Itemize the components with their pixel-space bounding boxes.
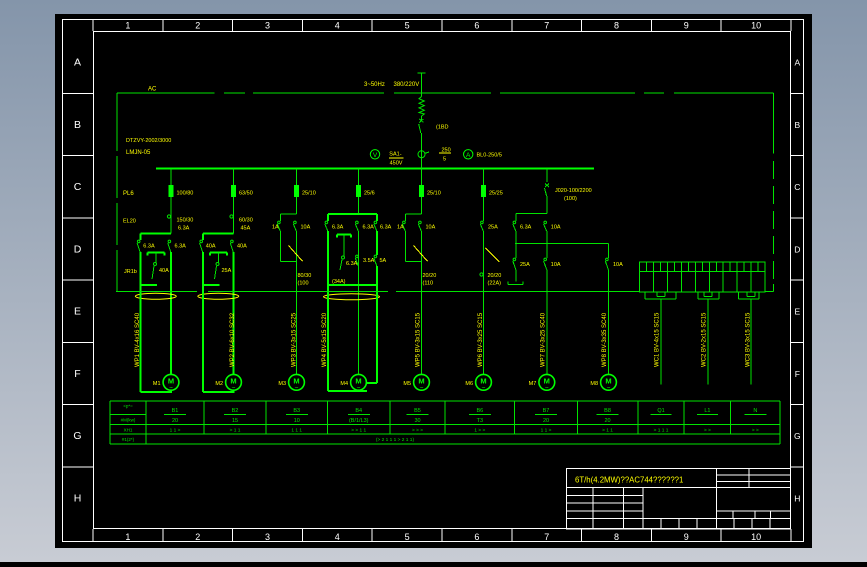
svg-text:2: 2 [195,532,200,542]
svg-text:> >: > > [752,428,759,434]
svg-text:1 1 >: 1 1 > [170,428,181,434]
svg-text:F: F [74,368,80,380]
svg-text:6.3A: 6.3A [380,225,392,231]
svg-text:B: B [794,120,800,130]
svg-text:10A: 10A [301,225,311,231]
svg-text:60/30: 60/30 [239,218,253,224]
svg-text:SA1-: SA1- [389,152,401,158]
svg-text:B7: B7 [543,408,550,414]
svg-text:20: 20 [172,418,178,424]
svg-text:WC2 BV-2x15 SC15: WC2 BV-2x15 SC15 [702,312,708,367]
svg-text:#M(kw): #M(kw) [121,418,136,423]
svg-text:N: N [753,408,757,414]
svg-text:4: 4 [335,532,340,542]
svg-text:6: 6 [474,21,479,31]
svg-text:3~50Hz: 3~50Hz [364,82,385,88]
svg-text:LMJN-05: LMJN-05 [126,150,151,156]
svg-text:10A: 10A [613,262,623,268]
svg-text:WP4 BV-5x15 SC20: WP4 BV-5x15 SC20 [322,312,328,367]
svg-text:6.3A: 6.3A [175,244,187,250]
svg-text:(34A): (34A) [332,279,346,285]
svg-text:B6: B6 [476,408,483,414]
svg-text:WP7 BV-3x25 SC40: WP7 BV-3x25 SC40 [541,312,547,367]
svg-text:Q1: Q1 [657,408,664,414]
svg-text:40A: 40A [237,244,247,250]
svg-text:6.3A: 6.3A [332,225,344,231]
svg-text:1: 1 [125,21,130,31]
svg-text:80/30: 80/30 [298,273,312,279]
svg-text:C: C [794,182,800,192]
svg-text:2: 2 [195,21,200,31]
svg-text:6.3A: 6.3A [143,244,155,250]
svg-text:25/10: 25/10 [302,191,316,197]
svg-text:G: G [794,431,801,441]
svg-text:B1: B1 [172,408,179,414]
svg-text:40A: 40A [159,268,169,274]
svg-text:1A: 1A [272,225,279,231]
svg-text:10: 10 [294,418,300,424]
svg-text:10A: 10A [551,262,561,268]
svg-text:A: A [794,58,800,68]
svg-text:450V: 450V [390,161,403,167]
svg-text:> > 1 1: > > 1 1 [351,428,366,434]
svg-text:EL20: EL20 [123,219,136,225]
svg-text:T3: T3 [477,418,483,424]
svg-text:WP6 BV-3x25 SC15: WP6 BV-3x25 SC15 [478,312,484,367]
svg-text:9: 9 [684,21,689,31]
svg-text:380/220V: 380/220V [394,82,420,88]
svg-text:25A: 25A [222,268,232,274]
svg-text:C: C [74,181,82,193]
svg-text:F: F [795,369,800,379]
svg-text:3.5A: 3.5A [363,258,375,264]
svg-text:(100: (100 [298,281,309,287]
svg-text:150/30: 150/30 [177,218,194,224]
svg-text:WC1 BV-4x15 SC15: WC1 BV-4x15 SC15 [655,312,661,367]
svg-text:WC3 BV-3x15 SC15: WC3 BV-3x15 SC15 [746,312,752,367]
svg-text:WP2 BV-6x10 SC32: WP2 BV-6x10 SC32 [230,312,236,367]
svg-text:10: 10 [751,21,761,31]
svg-text:3: 3 [265,532,270,542]
svg-text:1A: 1A [397,225,404,231]
svg-text:6.3A: 6.3A [178,226,190,232]
svg-text:WP5 BV-3x15 SC15: WP5 BV-3x15 SC15 [416,312,422,367]
svg-text:10A: 10A [426,225,436,231]
svg-text:(100): (100) [564,196,577,202]
svg-text:~: ~ [607,384,611,391]
svg-text:M1: M1 [153,381,161,387]
svg-text:BL0-250/5: BL0-250/5 [477,153,502,159]
svg-text:XH1: XH1 [124,428,133,433]
svg-text:J020-100/2200: J020-100/2200 [555,188,592,194]
svg-text:25/6: 25/6 [364,191,375,197]
svg-text:M4: M4 [340,381,348,387]
svg-text:5A: 5A [380,258,387,264]
svg-text:WP8 BV-3x35 SC40: WP8 BV-3x35 SC40 [602,312,608,367]
svg-text:JR1b: JR1b [124,269,137,275]
svg-text:25A: 25A [520,262,530,268]
svg-text:20: 20 [604,418,610,424]
svg-text:5: 5 [405,21,410,31]
svg-text:DTZVY-2002/3000: DTZVY-2002/3000 [126,138,171,144]
svg-text:1 1 1: 1 1 1 [291,428,302,434]
svg-text:B4: B4 [355,408,362,414]
svg-text:H: H [794,493,800,503]
svg-text:G: G [73,430,81,442]
svg-text:5: 5 [443,157,446,163]
svg-text:M5: M5 [403,381,411,387]
svg-text:20/20: 20/20 [423,273,437,279]
svg-text:100/80: 100/80 [177,191,194,197]
svg-text:(22A): (22A) [488,281,502,287]
svg-text:D: D [794,244,800,254]
svg-text:(110: (110 [423,281,434,287]
svg-text:15: 15 [232,418,238,424]
svg-text:WP1 BV-4x16 SC40: WP1 BV-4x16 SC40 [135,312,141,367]
svg-text:B2: B2 [232,408,239,414]
svg-text:6T/h(4.2MW)??AC744??????1: 6T/h(4.2MW)??AC744??????1 [575,476,683,485]
svg-text:9: 9 [684,532,689,542]
svg-text:> > >: > > > [412,428,423,434]
svg-text:(1BD: (1BD [436,125,449,131]
svg-text:B3: B3 [293,408,300,414]
svg-text:30: 30 [414,418,420,424]
svg-text:4: 4 [335,21,340,31]
svg-text:H: H [74,492,82,504]
svg-text:E: E [74,306,81,318]
svg-text:~: ~ [295,384,299,391]
svg-text:M7: M7 [529,381,537,387]
svg-text:6.3A: 6.3A [520,225,532,231]
svg-text:M8: M8 [590,381,598,387]
svg-text:250: 250 [442,148,451,154]
svg-text:(B/1/L3): (B/1/L3) [349,418,369,424]
svg-text:25/25: 25/25 [489,191,503,197]
svg-text:8: 8 [614,21,619,31]
svg-text:~: ~ [232,384,236,391]
svg-text:25A: 25A [488,225,498,231]
svg-text:> 1 1: > 1 1 [230,428,241,434]
svg-text:5: 5 [405,532,410,542]
svg-text:1: 1 [125,532,130,542]
svg-text:> 1 1 1: > 1 1 1 [654,428,669,434]
svg-text:7: 7 [544,21,549,31]
svg-text:25/10: 25/10 [427,191,441,197]
svg-text:(> 2 1 1 1 > 2 1 1): (> 2 1 1 1 > 2 1 1) [376,437,415,443]
svg-text:20: 20 [543,418,549,424]
svg-text:M3: M3 [278,381,286,387]
svg-text:1 > >: 1 > > [474,428,485,434]
svg-text:10A: 10A [551,225,561,231]
svg-text:63/50: 63/50 [239,191,253,197]
svg-text:6: 6 [474,532,479,542]
svg-text:1 1 >: 1 1 > [541,428,552,434]
svg-text:WP3 BV-3x15 SC25: WP3 BV-3x15 SC25 [292,312,298,367]
svg-text:7: 7 [544,532,549,542]
svg-text:10: 10 [751,532,761,542]
svg-text:8: 8 [614,532,619,542]
svg-text:AC: AC [148,87,157,93]
svg-text:V: V [373,152,378,159]
svg-text:B: B [74,119,81,131]
svg-text:~: ~ [169,384,173,391]
svg-text:6.3A: 6.3A [363,225,375,231]
svg-text:A: A [74,57,81,69]
svg-text:20/20: 20/20 [488,273,502,279]
svg-text:~: ~ [357,384,361,391]
svg-text:~: ~ [545,384,549,391]
svg-text:PL6: PL6 [123,191,134,197]
svg-text:B8: B8 [604,408,611,414]
svg-text:D: D [74,243,82,255]
svg-text:M2: M2 [215,381,223,387]
svg-text:> >: > > [704,428,711,434]
svg-text:A: A [466,152,471,159]
svg-text:3: 3 [265,21,270,31]
svg-text:~: ~ [420,384,424,391]
svg-text:B5: B5 [414,408,421,414]
svg-text:6.3A: 6.3A [346,261,358,267]
svg-text:#1(2*): #1(2*) [122,437,135,442]
svg-text:E: E [794,307,800,317]
svg-text:L1: L1 [704,408,710,414]
svg-text:M6: M6 [465,381,473,387]
svg-text:40A: 40A [206,244,216,250]
svg-text:~: ~ [482,384,486,391]
svg-text:45A: 45A [241,226,251,232]
svg-text:<p*=: <p*= [123,404,133,409]
svg-text:> 1 1: > 1 1 [602,428,613,434]
